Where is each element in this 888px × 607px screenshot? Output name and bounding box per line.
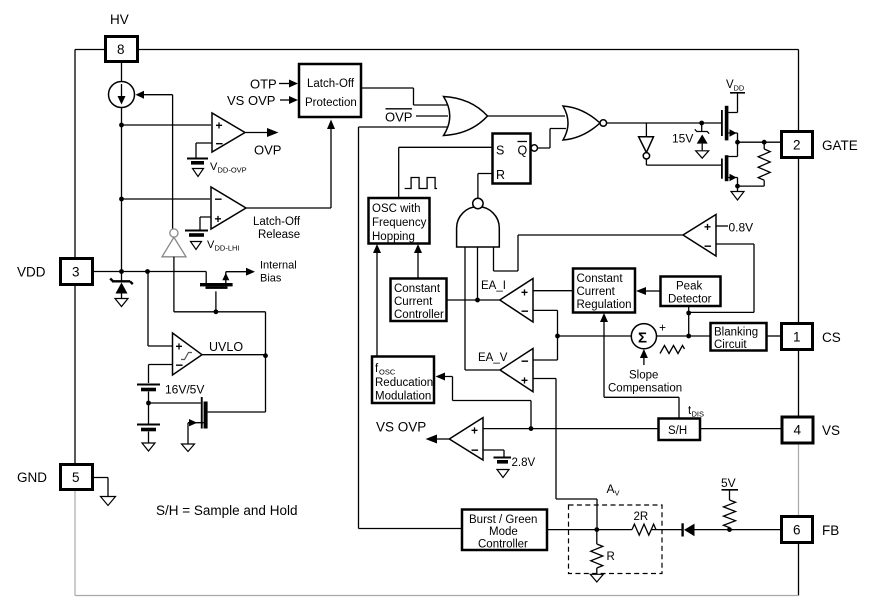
svg-text:−: − <box>216 136 224 151</box>
block S/H sample hold <box>659 405 705 440</box>
svg-text:VS OVP: VS OVP <box>227 93 275 108</box>
pin 5 GND <box>17 465 93 490</box>
svg-text:A: A <box>607 482 615 496</box>
pin 1 CS <box>782 324 841 350</box>
svg-text:Regulation: Regulation <box>577 299 632 311</box>
wire NAND left input from EA_V output <box>464 247 466 370</box>
svg-text:1: 1 <box>793 330 801 345</box>
wire sigma input from CS <box>657 335 711 337</box>
block Burst Green Mode Controller <box>462 510 547 551</box>
svg-text:Modulation: Modulation <box>375 391 431 403</box>
svg-text:+: + <box>216 119 223 133</box>
svg-text:Peak: Peak <box>676 281 702 293</box>
svg-text:FB: FB <box>822 523 839 538</box>
inverter buffer (grey) <box>162 229 186 257</box>
node Av label <box>607 482 620 498</box>
zener diode at VDD node <box>110 279 133 307</box>
svg-text:Circuit: Circuit <box>714 339 747 351</box>
wire inverter input from UVLO rail <box>173 257 175 312</box>
svg-text:−: − <box>521 354 529 369</box>
svg-text:GND: GND <box>17 470 47 485</box>
wire UVLO - input <box>149 365 173 384</box>
op-amp EA_V <box>478 349 533 392</box>
wire diode to FB pin <box>695 527 782 532</box>
svg-text:GATE: GATE <box>822 138 858 153</box>
svg-text:+: + <box>471 424 478 438</box>
IC outline bottom edge <box>75 595 799 597</box>
svg-text:VDD: VDD <box>17 265 46 280</box>
svg-text:Frequency: Frequency <box>372 217 427 229</box>
svg-text:−: − <box>215 192 223 207</box>
svg-text:VS OVP: VS OVP <box>376 420 426 435</box>
wire EA_V output to NAND <box>465 369 500 371</box>
resistor gate pulldown <box>738 142 771 186</box>
svg-text:OSC: OSC <box>379 368 396 377</box>
wire UVLO output <box>202 354 266 356</box>
resistor 2R <box>632 511 656 535</box>
svg-text:UVLO: UVLO <box>209 340 243 354</box>
node OTP input <box>250 77 298 92</box>
pin 8 HV <box>106 12 138 62</box>
wire pin8 to current source <box>121 62 123 82</box>
block OSC with Frequency Hopping <box>369 198 430 244</box>
wire to Latch-Off Release - input <box>122 198 211 200</box>
svg-text:Internal: Internal <box>260 260 297 272</box>
svg-text:Compensation: Compensation <box>608 383 682 395</box>
inverter driver low side <box>639 123 721 165</box>
NAND gate U7 <box>457 198 500 247</box>
transistor UVLO feedback NMOS <box>149 312 268 452</box>
pin 4 VS <box>782 417 840 443</box>
wire CCC to OSC arrow <box>414 244 422 278</box>
svg-text:DD: DD <box>734 84 745 93</box>
svg-text:EA_V: EA_V <box>478 352 508 364</box>
node slope compensation arrow <box>608 349 682 395</box>
svg-text:OTP: OTP <box>250 77 277 92</box>
svg-text:Q: Q <box>518 144 528 158</box>
block Constant Current Controller <box>391 279 447 322</box>
svg-text:Burst / Green: Burst / Green <box>469 514 537 526</box>
wire NOR output gate drive line <box>607 121 722 126</box>
wire OR output to NOR <box>487 115 565 117</box>
wire current source control input <box>136 91 173 229</box>
svg-text:Release: Release <box>258 229 300 241</box>
reference VDD-OVP <box>187 159 247 177</box>
wire Latch-Off Release output to protection block <box>246 120 335 209</box>
wire EA_V + input from FB divider <box>533 379 597 530</box>
op-amp VS OVP comparator <box>449 418 483 460</box>
svg-text:OVP: OVP <box>254 143 281 158</box>
NOR gate U5 <box>563 106 607 140</box>
svg-text:OSC with: OSC with <box>372 203 421 215</box>
wire NAND right input from 0.8V comparator <box>494 235 684 271</box>
wire S/H output bus <box>483 426 658 431</box>
pin 6 FB <box>782 517 840 543</box>
wire S/H to VS pin <box>700 428 782 430</box>
svg-text:Slope: Slope <box>629 370 658 382</box>
svg-text:R: R <box>496 168 505 182</box>
pin 3 VDD <box>17 259 93 285</box>
wire Latch-Off Release + input <box>200 217 211 230</box>
svg-text:2.8V: 2.8V <box>512 457 536 469</box>
wire fOSC block to OSC arrow <box>373 244 381 356</box>
OR gate U4 <box>444 97 488 136</box>
svg-text:Hopping: Hopping <box>372 231 415 243</box>
svg-text:VS: VS <box>822 423 840 438</box>
block Blanking Circuit <box>711 323 767 351</box>
reference 2.8V <box>483 450 535 478</box>
svg-text:+: + <box>521 374 528 388</box>
svg-text:3: 3 <box>72 265 80 280</box>
svg-text:+: + <box>176 340 183 354</box>
IC outline right edge <box>798 50 800 596</box>
power VDD rail <box>726 79 745 113</box>
wire sigma output to error amps <box>558 335 632 337</box>
node OVP-bar signal <box>385 109 448 125</box>
clock waveform glyph <box>405 178 438 189</box>
svg-text:8: 8 <box>117 42 125 57</box>
wire HV rail vertical <box>119 108 124 280</box>
SR latch U6 <box>493 134 538 184</box>
wire R input from NAND <box>478 174 492 199</box>
svg-text:Controller: Controller <box>478 539 528 551</box>
wire 2R to diode <box>651 529 681 531</box>
wire Burst output to divider <box>547 527 632 532</box>
svg-text:Current: Current <box>394 296 433 308</box>
wire VDD rail from pin 3 <box>93 269 206 274</box>
svg-text:Latch-Off: Latch-Off <box>253 216 301 228</box>
svg-text:DD-LHI: DD-LHI <box>215 244 240 253</box>
power 5V pullup <box>721 476 738 530</box>
svg-text:Constant: Constant <box>394 283 441 295</box>
svg-text:6: 6 <box>793 523 801 538</box>
adder slope compensation sigma <box>631 321 666 349</box>
wire OVP comparator output arrow <box>245 128 281 158</box>
svg-text:+: + <box>659 321 666 335</box>
note S/H = Sample and Hold <box>156 503 297 518</box>
wire Latch-Off Protection output to OR gate <box>361 88 447 105</box>
svg-text:Reducation: Reducation <box>375 377 433 389</box>
svg-text:Protection: Protection <box>305 97 357 109</box>
svg-text:+: + <box>704 220 711 234</box>
wire to OVP comparator + <box>122 124 212 126</box>
reference 16V/5V battery <box>137 383 204 452</box>
svg-text:0.8V: 0.8V <box>729 221 754 235</box>
wire UVLO output rail to gate and inverter <box>174 291 266 314</box>
svg-text:4: 4 <box>794 423 802 438</box>
transistor driver high side <box>721 106 738 157</box>
wire 0.8V comparator - input to CS node <box>689 244 754 312</box>
svg-text:HV: HV <box>110 12 129 27</box>
wire S input from OSC <box>399 147 492 198</box>
pin 2 GATE <box>782 132 858 158</box>
zener diode 15V <box>672 123 709 158</box>
transistor driver low side <box>721 155 744 200</box>
diode FB <box>683 523 695 536</box>
wire Peak Detector output to CCR <box>636 287 661 295</box>
svg-text:+: + <box>521 286 528 300</box>
wire S/H to CCR tDIS path <box>600 313 679 418</box>
wire OVP comparator - input <box>196 143 212 158</box>
wire gate output node <box>735 140 781 145</box>
svg-text:15V: 15V <box>672 132 693 146</box>
node VS OVP input <box>227 93 298 108</box>
node 0.8V reference <box>716 221 753 235</box>
svg-text:+: + <box>215 212 222 226</box>
wire UVLO + input from VDD <box>148 272 173 347</box>
svg-text:Controller: Controller <box>394 309 444 321</box>
op-amp OVP comparator <box>212 113 245 152</box>
current source I1 <box>109 82 135 108</box>
wire Q-bar to NOR input <box>538 129 567 149</box>
svg-text:Bias: Bias <box>260 273 282 285</box>
block Constant Current Regulation <box>573 269 635 313</box>
svg-text:Latch-Off: Latch-Off <box>307 78 355 90</box>
svg-text:DD-OVP: DD-OVP <box>218 166 247 175</box>
block fOSC Reducation Modulation <box>372 357 434 404</box>
svg-text:Mode: Mode <box>489 526 518 538</box>
svg-text:−: − <box>521 304 529 319</box>
wire EA_I + input from CCR <box>533 290 573 292</box>
svg-text:CS: CS <box>822 330 841 345</box>
svg-text:R: R <box>607 551 615 563</box>
op-amp Latch-Off Release comparator <box>211 187 301 241</box>
wire EA_I output to CCC and NAND <box>447 247 500 302</box>
wire CS node to peak detector and 0.8V comp <box>686 306 691 339</box>
IC outline left edge <box>74 50 76 596</box>
svg-text:Blanking: Blanking <box>714 327 758 339</box>
svg-text:S: S <box>496 144 504 158</box>
svg-text:5V: 5V <box>721 476 736 490</box>
dashed divider box <box>569 505 663 574</box>
svg-text:Detector: Detector <box>668 294 712 306</box>
svg-text:2: 2 <box>793 138 801 153</box>
wire EA_I - input to sense node <box>533 310 560 360</box>
wire Blanking to CS pin <box>767 335 782 337</box>
svg-text:S/H = Sample and Hold: S/H = Sample and Hold <box>156 503 297 518</box>
svg-text:Constant: Constant <box>577 273 624 285</box>
op-amp UVLO comparator <box>173 333 244 375</box>
svg-text:16V/5V: 16V/5V <box>165 383 204 397</box>
svg-text:Current: Current <box>577 286 616 298</box>
svg-text:2R: 2R <box>634 511 649 523</box>
svg-text:5: 5 <box>72 470 80 485</box>
op-amp 0.8V comparator <box>683 215 716 257</box>
transistor internal bias MOSFET <box>200 260 297 289</box>
svg-text:OVP: OVP <box>385 110 412 125</box>
svg-text:DIS: DIS <box>692 410 705 419</box>
ground at pin 5 <box>93 478 116 506</box>
svg-text:V: V <box>615 489 620 498</box>
svg-text:−: − <box>704 239 712 254</box>
resistor R to ground <box>590 530 615 582</box>
wire VS OVP output arrow <box>376 420 449 444</box>
reference VDD-LHI <box>185 231 240 253</box>
svg-text:Σ: Σ <box>638 330 647 347</box>
svg-text:−: − <box>471 443 479 458</box>
svg-text:S/H: S/H <box>668 425 687 437</box>
wire burst input to OR gate <box>359 127 462 529</box>
IC outline top edge <box>75 49 799 51</box>
wire EA_V - input <box>533 359 558 361</box>
svg-text:EA_I: EA_I <box>481 280 506 292</box>
wire fOSC modulation input <box>436 373 532 429</box>
block Peak Detector <box>661 277 721 307</box>
block Latch-Off Protection <box>299 64 361 117</box>
op-amp EA_I <box>481 279 533 323</box>
sawtooth glyph <box>660 346 685 354</box>
